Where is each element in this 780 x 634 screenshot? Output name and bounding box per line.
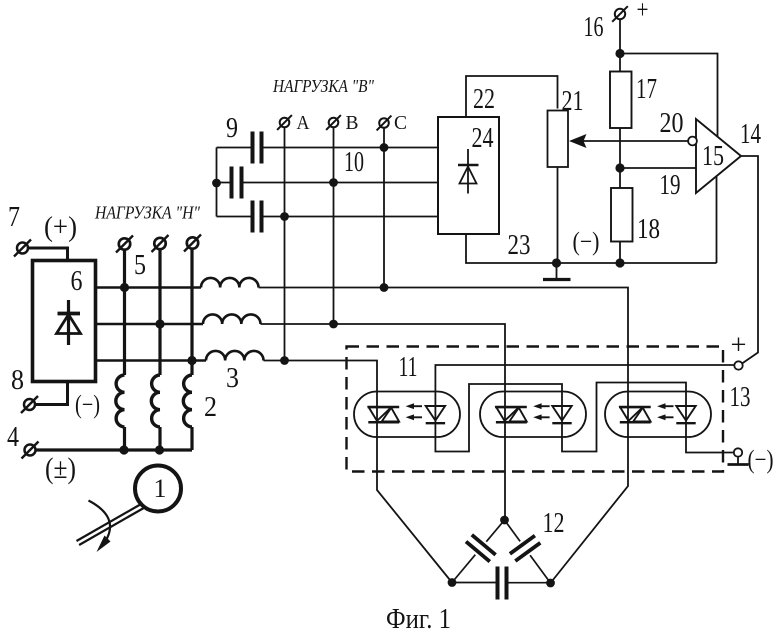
svg-text:+: + bbox=[637, 0, 649, 24]
wire phase 2 load H bbox=[158, 250, 161, 376]
junction delta right bbox=[546, 579, 555, 588]
svg-text:НАГРУЗКА "В": НАГРУЗКА "В" bbox=[272, 76, 374, 96]
comparator U3 (15) bbox=[696, 119, 741, 193]
svg-text:5: 5 bbox=[134, 250, 146, 281]
generator shaft bbox=[77, 504, 145, 546]
svg-text:6: 6 bbox=[71, 266, 83, 297]
junction bus1-C bbox=[380, 283, 389, 292]
potentiometer R1 (21) bbox=[548, 111, 569, 168]
capacitor C2 (12) right side bbox=[505, 520, 551, 583]
wire 8 from rectifier bbox=[36, 382, 68, 405]
inductor L5 (3) bbox=[203, 314, 261, 324]
terminal C bbox=[377, 116, 392, 131]
wire bus1 left bbox=[96, 286, 202, 288]
label 22 bbox=[473, 84, 495, 115]
label load B bbox=[272, 76, 374, 96]
junction C-cap bbox=[380, 143, 389, 152]
light arrows opto 2 bbox=[533, 403, 549, 420]
wire comparator output bbox=[741, 156, 758, 364]
svg-text:+: + bbox=[731, 329, 747, 361]
capacitor C6 (9) bbox=[217, 201, 439, 233]
terminal phase 1 (5) bbox=[116, 236, 133, 253]
junction rail-C5 bbox=[212, 179, 221, 188]
label 24 bbox=[472, 123, 494, 154]
ground symbol (23) bbox=[543, 263, 571, 280]
capacitor C5 (9) bbox=[217, 167, 439, 199]
capacitor C3 (12) bottom side bbox=[452, 567, 551, 600]
svg-text:С: С bbox=[394, 112, 407, 134]
light arrows opto 3 bbox=[657, 403, 673, 420]
junction delta left bbox=[448, 578, 457, 587]
light arrows opto 1 bbox=[406, 403, 422, 420]
svg-text:24: 24 bbox=[472, 123, 494, 154]
svg-text:17: 17 bbox=[636, 74, 657, 105]
svg-text:15: 15 bbox=[702, 141, 724, 172]
wire coil 3 to neutral bbox=[190, 427, 193, 450]
svg-text:3: 3 bbox=[226, 363, 239, 394]
svg-text:2: 2 bbox=[204, 392, 217, 423]
wire phase 1 load H bbox=[123, 250, 126, 376]
wire phase 3 load H bbox=[190, 250, 193, 376]
wire capacitor rail bbox=[216, 148, 218, 217]
label 20 bbox=[660, 108, 684, 139]
wire LED3 to - terminal bbox=[686, 406, 734, 453]
svg-text:10: 10 bbox=[344, 147, 364, 178]
rectifier U1 (6) bbox=[33, 261, 96, 382]
label 8 bbox=[11, 365, 24, 396]
label 5 bbox=[134, 250, 146, 281]
wire neutral bottom bbox=[36, 448, 193, 451]
wire 16 down bbox=[619, 20, 621, 54]
label (+) bbox=[44, 211, 77, 243]
wire ground bus 23 bbox=[466, 234, 717, 263]
inductor L1 (2) bbox=[116, 375, 125, 427]
label 17 bbox=[636, 74, 657, 105]
wire bus1 right to opto3 bbox=[259, 288, 629, 584]
label + right bbox=[731, 329, 747, 361]
label (±) bbox=[45, 452, 76, 485]
junction supply bbox=[615, 49, 624, 58]
label 2 bbox=[204, 392, 217, 423]
svg-text:Фиг. 1: Фиг. 1 bbox=[386, 604, 451, 634]
wire 7 to rectifier bbox=[28, 248, 68, 261]
capacitor C1 (12) left side bbox=[452, 520, 505, 583]
label 16 bbox=[584, 12, 604, 43]
label 7 bbox=[8, 202, 20, 233]
optocoupler U5 (11) body bbox=[480, 392, 586, 438]
optocoupler U6 (11) body bbox=[605, 392, 711, 438]
svg-text:21: 21 bbox=[562, 86, 584, 117]
svg-text:7: 7 bbox=[8, 202, 20, 233]
junction divider bbox=[615, 163, 624, 172]
terminal B bbox=[326, 115, 341, 130]
junction R18-ground bbox=[615, 258, 624, 267]
label C bbox=[394, 112, 407, 134]
resistor R3 (18) bbox=[611, 188, 633, 263]
junction n1 bbox=[119, 445, 128, 454]
svg-text:В: В bbox=[346, 112, 359, 134]
wire + to LED1 bbox=[435, 365, 734, 406]
LED symbol opto 3 bbox=[676, 406, 695, 423]
diode symbol 24 bbox=[458, 149, 479, 194]
terminal phase 2 (5) bbox=[152, 235, 169, 252]
inductor L2 (2) bbox=[151, 375, 160, 427]
triac symbol opto 1 bbox=[368, 407, 400, 422]
terminal 8 bbox=[21, 396, 38, 413]
junction bus3-A bbox=[280, 356, 289, 365]
wire coil 1 to neutral bbox=[123, 427, 126, 450]
label 19 bbox=[660, 170, 681, 201]
wire coil 2 to neutral bbox=[158, 427, 161, 450]
wire divider to comparator input 19 bbox=[620, 167, 696, 169]
wire bus3 right to opto1 bbox=[264, 361, 453, 583]
junction bus2-phase2 bbox=[155, 319, 164, 328]
terminal - output bbox=[728, 448, 749, 464]
wiper arrow to comparator input bbox=[569, 134, 688, 148]
svg-text:(−): (−) bbox=[748, 445, 774, 474]
wire bus3 left bbox=[96, 359, 207, 361]
junction delta top bbox=[500, 516, 509, 525]
terminal A bbox=[277, 115, 292, 130]
wire R17 to R18 bbox=[619, 128, 621, 188]
wire LED2 to LED3 bbox=[562, 383, 686, 452]
junction n2 bbox=[155, 445, 164, 454]
triac symbol opto 2 bbox=[495, 407, 527, 422]
label 18 bbox=[637, 214, 660, 245]
label 21 bbox=[562, 86, 584, 117]
wire bus2 right to opto2 bbox=[261, 324, 506, 520]
svg-text:23: 23 bbox=[508, 230, 531, 261]
svg-text:А: А bbox=[297, 112, 310, 134]
svg-text:22: 22 bbox=[473, 84, 495, 115]
label load H bbox=[94, 203, 200, 223]
svg-text:9: 9 bbox=[226, 113, 238, 144]
junction B-cap bbox=[329, 178, 338, 187]
junction bus1-phase1 bbox=[120, 283, 129, 292]
wire phase B load B bbox=[333, 127, 335, 324]
junction bus3-phase3 bbox=[187, 356, 196, 365]
label 14 bbox=[740, 119, 761, 150]
inverting input bubble 20 bbox=[688, 137, 697, 146]
label (-) load H bbox=[75, 390, 100, 419]
label 15 bbox=[702, 141, 724, 172]
svg-text:(+): (+) bbox=[44, 211, 77, 243]
label + top bbox=[637, 0, 649, 24]
terminal + output bbox=[734, 361, 742, 369]
label 4 bbox=[7, 422, 19, 453]
terminal phase 3 (5) bbox=[184, 235, 201, 252]
wire U2 top to pot bbox=[466, 76, 558, 117]
svg-text:19: 19 bbox=[660, 170, 681, 201]
terminal 4 bbox=[22, 442, 39, 459]
label A bbox=[297, 112, 310, 134]
svg-text:(±): (±) bbox=[45, 452, 76, 485]
svg-text:16: 16 bbox=[584, 12, 604, 43]
label (-) right bbox=[748, 445, 774, 474]
svg-text:11: 11 bbox=[399, 352, 418, 383]
wire phase C load B bbox=[383, 128, 385, 288]
label (-) center bbox=[573, 227, 600, 256]
wire comparator negative supply bbox=[716, 176, 718, 263]
optocoupler U4 (11) body bbox=[354, 392, 460, 438]
svg-text:12: 12 bbox=[543, 508, 565, 539]
junction pot-ground bbox=[552, 258, 561, 267]
svg-text:(−): (−) bbox=[75, 390, 100, 419]
label 12 bbox=[543, 508, 565, 539]
label 10 bbox=[344, 147, 364, 178]
wire pot to ground bus bbox=[557, 167, 559, 263]
LED symbol opto 1 bbox=[426, 406, 445, 423]
inductor L3 (2) bbox=[183, 375, 192, 427]
svg-text:(−): (−) bbox=[573, 227, 600, 256]
label 3 bbox=[226, 363, 239, 394]
wire supply to comparator bbox=[620, 54, 718, 137]
svg-text:20: 20 bbox=[660, 108, 684, 139]
rectifier U2 (22) bbox=[438, 117, 499, 234]
diode symbol in U1 bbox=[57, 300, 81, 345]
junction bus2-B bbox=[329, 320, 338, 329]
label B bbox=[346, 112, 359, 134]
generator M1 (1) bbox=[135, 466, 181, 512]
svg-text:НАГРУЗКА "Н": НАГРУЗКА "Н" bbox=[94, 203, 200, 223]
terminal 16 bbox=[612, 6, 628, 22]
svg-text:13: 13 bbox=[730, 382, 751, 413]
label 13 bbox=[730, 382, 751, 413]
terminal 7 bbox=[14, 240, 31, 257]
capacitor C4 (9) bbox=[217, 132, 439, 164]
svg-text:4: 4 bbox=[7, 422, 19, 453]
label 6 bbox=[71, 266, 83, 297]
inductor L4 (3) bbox=[201, 278, 259, 288]
LED symbol opto 2 bbox=[552, 406, 571, 423]
svg-text:8: 8 bbox=[11, 365, 24, 396]
rotation arrow bbox=[89, 501, 111, 553]
figure caption bbox=[386, 604, 451, 634]
label 9 bbox=[226, 113, 238, 144]
svg-text:18: 18 bbox=[637, 214, 660, 245]
inductor L6 (3) bbox=[206, 351, 264, 361]
junction A-cap bbox=[280, 212, 289, 221]
wire phase A load B bbox=[284, 127, 286, 361]
dashed block 13 bbox=[347, 347, 724, 472]
wire LED1 to LED2 bbox=[435, 384, 562, 452]
svg-text:1: 1 bbox=[154, 474, 167, 503]
resistor R2 (17) bbox=[610, 54, 632, 129]
label 11 bbox=[399, 352, 418, 383]
svg-text:14: 14 bbox=[740, 119, 761, 150]
wire bus2 left bbox=[96, 323, 204, 325]
triac symbol opto 3 bbox=[619, 407, 651, 422]
label 23 bbox=[508, 230, 531, 261]
